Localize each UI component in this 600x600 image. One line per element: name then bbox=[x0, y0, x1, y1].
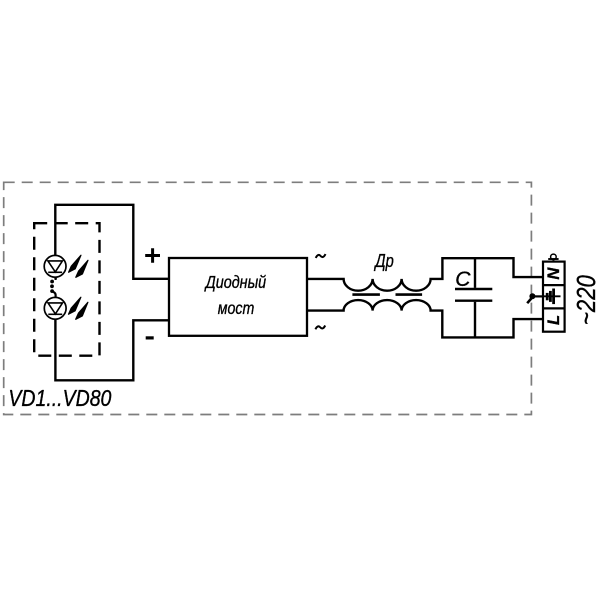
capacitor C1 leads bbox=[474, 258, 476, 337]
LED VD1 light arrows bbox=[69, 255, 88, 277]
wire: bridge - output left, down and to LED string cathode bbox=[55, 319, 169, 380]
label ~ (bottom ac) bbox=[315, 326, 325, 330]
protective earth symbol in middle cell bbox=[544, 289, 561, 305]
diode bridge U1 box bbox=[169, 258, 307, 336]
LED VD80 light arrows bbox=[69, 297, 88, 319]
svg-text:VD1...VD80: VD1...VD80 bbox=[8, 385, 111, 411]
dotted series link between LEDs bbox=[50, 277, 57, 297]
screw terminal on top of block bbox=[551, 254, 557, 260]
label + bbox=[145, 248, 160, 263]
wire: LED string anode up, over and down to bridge + input bbox=[55, 205, 169, 279]
label ~ (top ac) bbox=[316, 254, 326, 258]
terminal block XT1 outline bbox=[543, 262, 565, 332]
LED VD80 bbox=[44, 297, 66, 319]
choke core bars bbox=[352, 293, 422, 296]
wire + choke winding top (bridge ~ to cap rail) bbox=[307, 258, 544, 291]
capacitor C1 plates bbox=[455, 289, 492, 301]
wire + choke winding bottom bbox=[307, 300, 544, 337]
protective earth wire with junction dot and tail bbox=[532, 295, 543, 297]
svg-text:Др: Др bbox=[374, 250, 394, 271]
terminal block dividers bbox=[543, 285, 565, 308]
svg-text:Диодный: Диодный bbox=[204, 272, 266, 292]
LED VD1 bbox=[44, 255, 66, 277]
svg-text:L: L bbox=[545, 315, 563, 325]
svg-text:C: C bbox=[455, 268, 471, 291]
outer dashed enclosure border bbox=[4, 182, 532, 414]
svg-text:мост: мост bbox=[218, 298, 255, 318]
svg-text:~220: ~220 bbox=[571, 275, 600, 325]
inner dashed LED-module box VD1...VD80 bbox=[34, 223, 99, 356]
label - bbox=[146, 336, 154, 339]
svg-text:N: N bbox=[545, 267, 563, 280]
